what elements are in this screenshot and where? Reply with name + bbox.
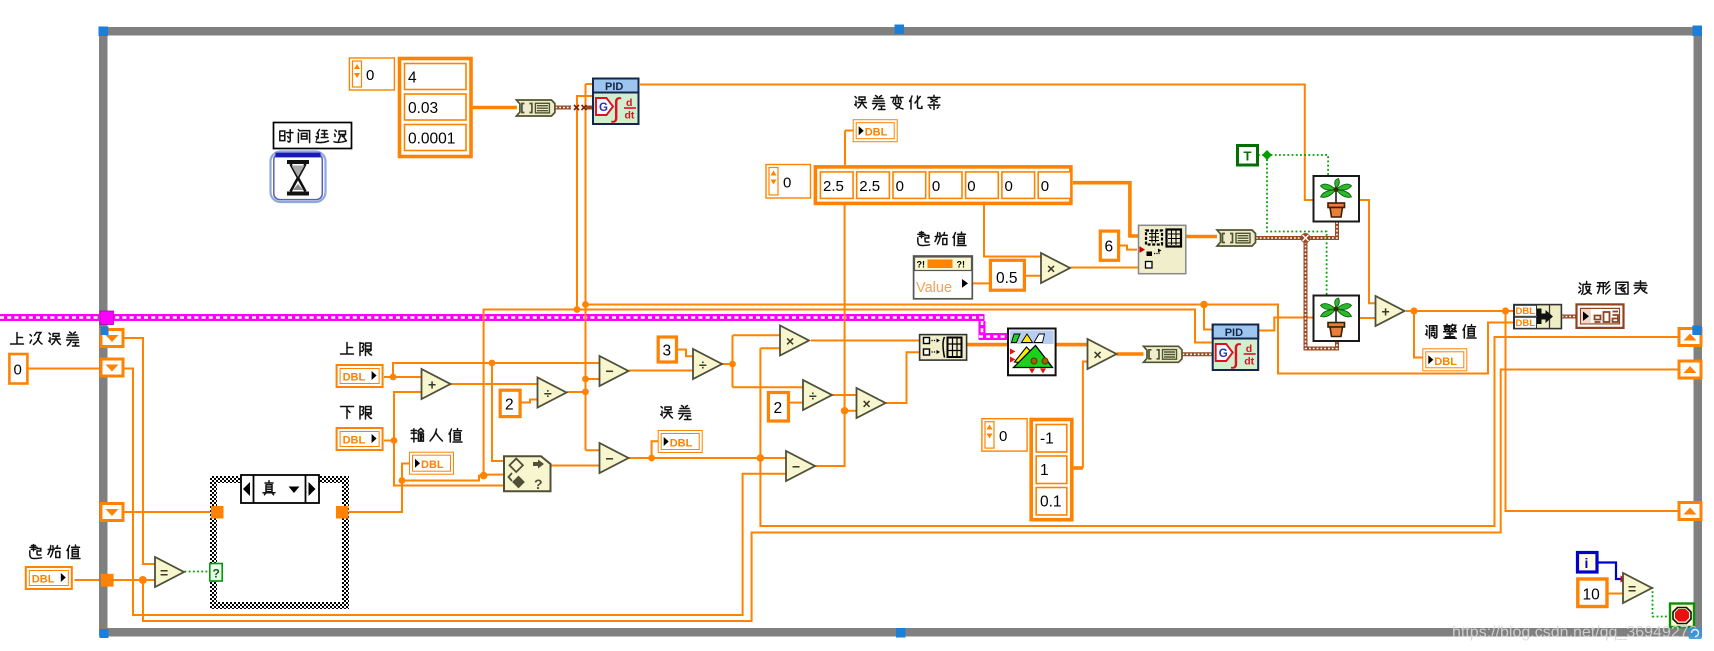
svg-text:T: T	[1244, 149, 1252, 164]
svg-text:2: 2	[774, 400, 783, 417]
svg-text:i: i	[1585, 555, 1589, 571]
svg-text:1: 1	[1040, 462, 1049, 479]
svg-text:+: +	[428, 377, 436, 393]
svg-text:0: 0	[896, 178, 904, 195]
svg-text:DBL: DBL	[1516, 306, 1536, 317]
svg-text:0: 0	[932, 178, 940, 195]
svg-text:2.5: 2.5	[859, 178, 880, 195]
svg-text:DBL: DBL	[1516, 318, 1536, 329]
svg-text:0: 0	[783, 175, 791, 192]
svg-text:−: −	[606, 363, 614, 379]
svg-text:0: 0	[999, 428, 1007, 445]
svg-text:2.5: 2.5	[823, 178, 844, 195]
svg-text:÷: ÷	[699, 357, 707, 373]
svg-text:6: 6	[1105, 239, 1114, 256]
svg-text:×: ×	[786, 333, 794, 349]
svg-text:?!: ?!	[917, 260, 926, 270]
svg-text:https://blog.csdn.net/qq_36949: https://blog.csdn.net/qq_36949278	[1452, 624, 1698, 641]
svg-text:0.03: 0.03	[408, 100, 438, 117]
svg-text:Value: Value	[916, 280, 952, 296]
svg-text:0.5: 0.5	[996, 270, 1018, 287]
svg-text:−: −	[606, 451, 614, 467]
svg-text:?: ?	[213, 567, 220, 581]
svg-text:÷: ÷	[809, 388, 817, 404]
svg-text:=: =	[160, 565, 168, 581]
svg-text:+: +	[1382, 304, 1390, 320]
svg-text:3: 3	[663, 343, 672, 360]
svg-text:÷: ÷	[544, 385, 552, 401]
svg-text:0: 0	[1005, 178, 1013, 195]
svg-text:0: 0	[366, 67, 374, 84]
svg-text:0.0001: 0.0001	[408, 131, 455, 148]
svg-text:0: 0	[14, 362, 22, 379]
svg-text:0.1: 0.1	[1040, 494, 1062, 511]
svg-text:2: 2	[505, 397, 514, 414]
svg-text:×: ×	[1094, 347, 1102, 363]
svg-text:×: ×	[1047, 261, 1055, 277]
svg-text:4: 4	[408, 70, 417, 87]
svg-text:0: 0	[967, 178, 975, 195]
svg-text:?: ?	[534, 476, 543, 492]
svg-text:?!: ?!	[957, 260, 966, 270]
svg-text:−: −	[792, 459, 800, 475]
svg-text:0: 0	[1041, 178, 1049, 195]
svg-text:×: ×	[863, 396, 871, 412]
svg-text:=: =	[1628, 581, 1636, 597]
svg-text:-1: -1	[1040, 431, 1054, 448]
svg-text:10: 10	[1583, 587, 1601, 604]
